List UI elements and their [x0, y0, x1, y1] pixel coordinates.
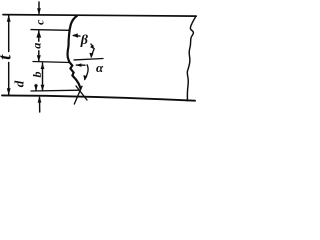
svg-text:d: d [11, 80, 26, 87]
svg-text:b: b [30, 72, 44, 78]
svg-text:α: α [96, 60, 104, 75]
svg-text:β: β [80, 33, 89, 48]
svg-text:a: a [29, 43, 43, 49]
svg-text:c: c [33, 19, 47, 25]
